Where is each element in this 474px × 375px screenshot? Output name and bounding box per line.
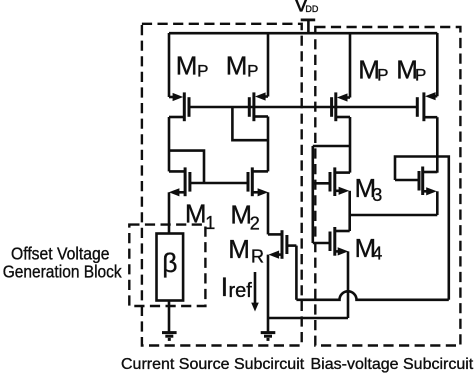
wire: gate column of M3 M4 [311, 146, 314, 243]
svg-text:P: P [415, 65, 426, 84]
wire: M3 source node to right NMOS source [350, 214, 438, 217]
svg-text:ref: ref [229, 280, 253, 302]
power supply VDD terminal [301, 20, 316, 33]
wire: source of MP2 from VDD rail [267, 33, 270, 97]
svg-text:M: M [226, 51, 248, 81]
ground under MR [261, 333, 276, 340]
wire: drain of MP3 down [349, 117, 352, 173]
svg-text:Generation Block: Generation Block [3, 262, 122, 282]
wire: drain of MP2 down to M2 [267, 117, 270, 172]
label M3 [355, 173, 383, 205]
wire: bias line from MR gate with hop over M4 source [296, 291, 448, 300]
dashed box: Current Source Subcircuit [142, 24, 302, 346]
svg-text:P: P [197, 62, 208, 81]
svg-text:P: P [247, 62, 258, 81]
pmos MP2 [249, 92, 268, 121]
wire: gate of MR down to bias line [295, 246, 298, 300]
wire: source of MP4 from VDD rail [436, 33, 439, 96]
label Offset Voltage Generation Block [3, 244, 122, 282]
svg-text:2: 2 [250, 214, 260, 234]
svg-text:P: P [377, 65, 388, 84]
current arrow Iref [251, 272, 259, 312]
svg-text:1: 1 [205, 213, 215, 233]
svg-text:M: M [228, 234, 250, 264]
wire: source of M2 down to MR drain [267, 192, 270, 234]
svg-text:R: R [251, 247, 264, 267]
wire: drain of MP4 down to right NMOS [436, 117, 439, 173]
pmos MP4 [417, 92, 437, 121]
svg-text:Current Source Subcircuit: Current Source Subcircuit [121, 356, 305, 373]
wire: beta block to ground [168, 301, 171, 333]
wire: source of MR down to ground [267, 255, 270, 332]
nmos M3 [313, 167, 350, 196]
svg-text:Bias-voltage Subcircuit: Bias-voltage Subcircuit [311, 356, 474, 373]
wire: source of M1 down to beta block [168, 192, 171, 233]
svg-text:M: M [185, 199, 207, 229]
wire: right NMOS gate loop to bias line [395, 157, 449, 300]
label M2 [230, 199, 259, 233]
wire: M4 source down to ground line [347, 251, 350, 318]
wire: source of MP1 from VDD rail [168, 33, 171, 97]
wire: M3 source down to M4 drain [348, 191, 351, 231]
svg-text:Offset Voltage: Offset Voltage [11, 244, 110, 264]
pmos MP3 [332, 92, 350, 121]
nmos M1 [169, 167, 190, 196]
label M1 [185, 199, 215, 234]
wire: gate-drain diode link of MP2 [232, 107, 268, 140]
dashed box: Offset Voltage Generation Block [129, 225, 205, 306]
nmos M2 [248, 167, 268, 196]
svg-text:4: 4 [372, 244, 382, 264]
wire: common gate line of all MP [189, 106, 417, 109]
nmos MR [268, 230, 296, 259]
pmos MP1 [169, 92, 189, 121]
wire: ground return line to MR ground [268, 317, 348, 320]
wire: right NMOS source down to M3 source node [436, 191, 439, 215]
svg-text:I: I [221, 272, 229, 302]
label Iref [221, 272, 253, 302]
svg-text:DD: DD [305, 4, 318, 14]
label M4 [355, 233, 383, 264]
wire: diode tap from M1 drain to gate line [169, 151, 204, 183]
label VDD [293, 0, 319, 16]
wire VDD rail [169, 32, 437, 35]
ground under beta block [162, 333, 177, 340]
nmos right cascode [395, 167, 437, 196]
svg-text:3: 3 [372, 185, 382, 205]
label MR [228, 234, 264, 267]
dashed box: Bias-voltage Subcircuit [315, 27, 460, 346]
wire: source of MP3 from VDD rail [349, 33, 352, 98]
svg-text:M: M [176, 51, 198, 81]
wire: MP3 drain node to M3/M4 gate column [313, 145, 350, 148]
svg-text:β: β [162, 248, 177, 278]
wire: drain of MP1 down to M1 [168, 117, 171, 171]
beta block [157, 234, 184, 301]
wire: common gate line of M1 M2 [190, 182, 248, 185]
nmos M4 [313, 227, 350, 256]
